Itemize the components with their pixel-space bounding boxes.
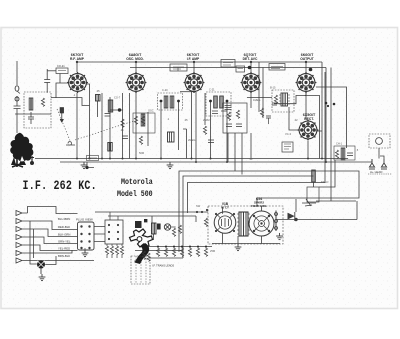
svg-text:CO-7: CO-7 (114, 96, 121, 100)
svg-text:2MEG: 2MEG (188, 138, 195, 142)
ground under speaker cluster (235, 244, 242, 251)
electrolytic capacitor C21 (288, 199, 297, 221)
tube socket box (105, 220, 123, 244)
svg-text:C-21: C-21 (209, 88, 215, 92)
fuse symbol F2 (381, 159, 387, 169)
wire V1 plate stub (76, 62, 78, 72)
output transformer cluster dashed box (272, 90, 294, 112)
tube V2 6A8G/T OSC-MOD (126, 72, 147, 93)
svg-text:50M: 50M (139, 151, 144, 155)
svg-text:BLK-GRN: BLK-GRN (58, 233, 70, 237)
wire antenna lead (16, 61, 18, 85)
wire V4 cathode drop (250, 93, 252, 108)
wire V4 plate stub (250, 62, 252, 72)
svg-text:1MEG: 1MEG (253, 98, 260, 102)
grid cap blob V4 (248, 66, 252, 70)
value box on bus above T3 (221, 60, 235, 68)
svg-text:.05: .05 (96, 89, 100, 93)
resistor small R19 (178, 225, 181, 233)
terminal arrow 7 (16, 258, 94, 263)
wire volume second line (108, 215, 196, 217)
svg-text:YEL-RED: YEL-RED (58, 247, 70, 251)
ground below plug (39, 274, 46, 281)
wire V2 plate stub (135, 62, 137, 72)
right choke coil (341, 148, 345, 160)
wire V5 screen link (316, 87, 347, 148)
svg-text:VC-3: VC-3 (285, 132, 291, 136)
wire right vertical from bus1 (321, 62, 323, 159)
antenna trimmer dashed box (131, 256, 150, 284)
junction dots right bundle (325, 102, 336, 107)
svg-text:SW: SW (196, 204, 201, 208)
wire A+ lead (362, 156, 384, 162)
wire V3 cathode drop b (195, 92, 197, 162)
svg-text:BLU-BRN: BLU-BRN (58, 217, 70, 221)
wire pot coil leads (152, 216, 154, 240)
antenna connector circles (15, 86, 19, 91)
cable connector block (78, 222, 95, 250)
capacitor C10 in detector (226, 124, 232, 127)
label box on bus (87, 156, 99, 161)
antenna series capacitor ticks (14, 96, 21, 133)
dial pointer mark (66, 142, 75, 145)
wire V1 cathode drop (76, 93, 78, 159)
wire under V2 vertical x148 (147, 112, 149, 146)
capacitor C13 (266, 116, 271, 124)
capacitor C7 (122, 136, 128, 139)
wire V3 plate stub (193, 62, 195, 72)
speaker plug P1 (37, 261, 45, 275)
junction blob y110 (118, 108, 121, 111)
resistor R24 row (156, 248, 159, 256)
wire under V3 vertical x205 (204, 93, 206, 125)
resistor R31 left of vibrator (204, 218, 207, 226)
coil T3 primary (214, 96, 218, 108)
value box on bus above V4-V5 (269, 64, 285, 71)
wire right long vertical x325 (188, 72, 326, 213)
T3 terminal dots (209, 100, 228, 103)
ground right of speaker (276, 233, 283, 240)
wire AVC drop b (262, 68, 264, 119)
svg-text:Motorola: Motorola (121, 178, 153, 187)
spark plate circle (376, 138, 383, 145)
resistor R23 below socket (120, 246, 123, 254)
coil L1 antenna (29, 98, 33, 110)
wire volume drop x196 (195, 216, 197, 222)
wire IF1 primary drop (178, 102, 180, 150)
svg-text:OUTPUT: OUTPUT (300, 57, 314, 61)
tone control box (307, 187, 319, 202)
tube V6 6X5G/T RECT (298, 120, 319, 141)
wire switch riser 2 (33, 229, 35, 258)
wire under V2 vertical x129 (129, 93, 131, 159)
wire detector top link (247, 97, 272, 99)
svg-text:250M: 250M (203, 118, 210, 122)
resistor R7 under V3 (203, 126, 206, 134)
capacitor C11 in detector (236, 124, 242, 127)
wire right vertical from bus2 (325, 68, 327, 163)
wire under V2 vertical x122 (122, 93, 124, 159)
wire mid vertical x186 (183, 129, 187, 159)
terminal arrow 3 (16, 227, 78, 237)
wire right vertical to speaker line (356, 201, 358, 220)
svg-text:RECT.: RECT. (304, 117, 314, 121)
wire under V1 vertical x110 (109, 97, 111, 159)
right cluster box (334, 146, 355, 160)
svg-text:CH-1: CH-1 (336, 142, 343, 146)
wire field coil to box (313, 182, 315, 187)
wire connector ground stub (84, 248, 86, 250)
capacitor C3 (44, 69, 50, 93)
wire under V4 vertical x251b (250, 133, 252, 159)
tube V3 6K7G/T IF AMP (184, 72, 205, 93)
coupling capacitor block (168, 132, 175, 142)
IF transformer T3 dashed can (206, 92, 231, 116)
wire connector exits (94, 227, 105, 242)
volume control solid hook (135, 243, 150, 264)
wire right long vertical x331 (330, 68, 332, 202)
capacitor C9 (208, 140, 214, 143)
connector pins (80, 225, 90, 249)
wire volume bottom link2 (148, 257, 183, 259)
wire IF2 drop b (226, 102, 228, 162)
power transformer T4 (237, 212, 250, 236)
wire V1 grid left (56, 83, 68, 98)
wire AVC drop a (258, 62, 260, 112)
tuning capacitor C1A (60, 108, 64, 123)
capacitor C12 (272, 103, 277, 105)
right cluster capacitor C15 (347, 153, 353, 156)
wire socket stubs (110, 212, 118, 220)
svg-text:GRN-YEL: GRN-YEL (58, 240, 71, 244)
RF coupling coil dark bar (108, 100, 112, 112)
terminal arrow 5 (16, 243, 78, 251)
wire V3 cathode drop (191, 92, 193, 159)
ground blob stem (12, 150, 23, 167)
svg-text:OSC. MOD.: OSC. MOD. (126, 57, 144, 61)
resistor R8 in detector (227, 112, 230, 120)
wire speaker output line (276, 219, 357, 221)
resistor R1 (41, 98, 44, 106)
volume control bracket outline (130, 229, 153, 248)
detector stage box (223, 103, 247, 133)
wire under V1 vertical x102 (101, 93, 103, 159)
oscillator coil L3 (141, 114, 145, 126)
junction dots on bus1 (76, 61, 307, 63)
IF transformer T2 dashed can (158, 93, 183, 110)
wire left box link (59, 74, 61, 84)
pilot lamp circle (164, 224, 175, 230)
svg-text:.02: .02 (249, 157, 253, 161)
ground below connector (82, 250, 89, 257)
ground blob artwork (10, 133, 33, 165)
wire B+ bus upper (35, 158, 348, 160)
terminal arrow 1 (16, 211, 28, 216)
wire under V1 vertical x97 (97, 101, 99, 117)
wire vibrator stem (223, 233, 262, 243)
wire box left link (47, 70, 56, 72)
value box on bus above V1 (56, 68, 68, 74)
wire second top bus (130, 67, 326, 69)
grid cap blob V5 (309, 68, 313, 72)
svg-text:A+ LEAD: A+ LEAD (370, 170, 383, 174)
wire spark plate drop (378, 148, 380, 159)
resistor R28 row (188, 248, 191, 256)
wire plug link (45, 256, 56, 265)
wire V5 down to rectifier (305, 93, 307, 120)
junction blob volume (144, 219, 147, 222)
padder capacitor C5 (105, 114, 111, 117)
oscillator cluster box (133, 113, 155, 133)
wire IF2 drop a (210, 102, 212, 159)
electrolytic blob on x110 (108, 143, 112, 152)
tube V5 6K6G/T OUTPUT (296, 72, 317, 93)
terminal arrow 2 (16, 219, 78, 230)
resistor R9 in detector (236, 110, 239, 118)
svg-text:RED-BLK: RED-BLK (58, 225, 70, 229)
svg-text:25M: 25M (210, 249, 215, 253)
wire lead labels (58, 217, 71, 258)
wire V5 plate stub (305, 62, 307, 72)
svg-text:I.F. AMP: I.F. AMP (187, 57, 200, 61)
resistor R6 (139, 136, 142, 144)
junction dots on bus (76, 158, 327, 164)
resistor on x122 (121, 119, 124, 127)
wire V1 plate right (86, 84, 89, 159)
wire V6 cathode drop (307, 141, 309, 159)
wire socket feed (95, 211, 208, 213)
wire resistor row feed (140, 246, 212, 248)
output transformer coil stack (279, 93, 290, 106)
svg-text:BRN-BLK: BRN-BLK (58, 254, 70, 258)
coil T2 secondary (170, 96, 174, 108)
svg-text:Model 500: Model 500 (117, 190, 153, 199)
svg-text:I.F. 262 KC.: I.F. 262 KC. (23, 179, 97, 194)
wire V5 screen routing (305, 96, 320, 159)
svg-text:ANT: ANT (134, 259, 140, 263)
battery tap junction (85, 162, 94, 169)
speaker SPK1 (249, 211, 274, 236)
value box left of V4 (236, 66, 245, 72)
resistor row junction dots (157, 246, 207, 248)
tube V4 6Q7G/T DET-AVC (241, 72, 262, 93)
speaker terminal strip (275, 211, 278, 232)
wire loop outer (179, 171, 359, 252)
socket pins (108, 224, 119, 240)
fuse symbol F1 (369, 159, 375, 169)
right cluster resistor R15 (335, 150, 338, 158)
resistor small R16 (172, 228, 175, 236)
wire IF1 secondary drop (160, 102, 162, 159)
terminal arrow 4 (16, 235, 78, 244)
T3 trimmer marks (212, 111, 227, 114)
volume control hub (137, 237, 142, 242)
antenna coil dashed box (24, 92, 51, 128)
wire vibrator top stem (223, 206, 262, 214)
svg-text:CO-21: CO-21 (57, 64, 65, 68)
vibrator mount dots (215, 213, 235, 232)
capacitor C2 (28, 112, 34, 124)
wire left horizontal y114 (15, 113, 51, 115)
coil T2 primary (164, 96, 168, 108)
wire tuner feed (51, 98, 90, 106)
resistor R13 (260, 108, 263, 116)
oscillator cluster resistor R4 (134, 116, 137, 124)
svg-text:C-20: C-20 (162, 88, 168, 92)
battery terminal mark (30, 156, 34, 165)
wire socket drops (107, 244, 122, 258)
resistor R17 hook area (142, 251, 145, 259)
speaker bolt dots (253, 215, 270, 232)
wire loop lower right (316, 200, 356, 202)
speaker assembly dashed enclosure (208, 206, 283, 244)
label A+ lead dashed (368, 173, 392, 175)
wire resistor row stubs (158, 247, 206, 249)
svg-text:R.F. AMP: R.F. AMP (70, 57, 85, 61)
svg-text:.02: .02 (294, 118, 298, 122)
wire V6 left feed (289, 107, 299, 130)
wire x335 link (319, 160, 335, 187)
wire switch riser (30, 221, 37, 264)
resistor R20 below socket (105, 246, 108, 254)
svg-text:I.F. TRANS LEADS: I.F. TRANS LEADS (152, 264, 174, 268)
dashed trimmer leads (136, 256, 146, 284)
wire detector drop d (241, 133, 243, 175)
coil T3 secondary (220, 96, 224, 108)
wire link y110 (110, 109, 123, 111)
svg-text:DET. AVC: DET. AVC (243, 57, 258, 61)
resistor R22 below socket (115, 246, 118, 254)
detector box hatch (225, 106, 232, 110)
svg-text:FIELD COIL: FIELD COIL (251, 204, 267, 208)
resistor R30 row (204, 248, 207, 256)
resistor R21 below socket (110, 246, 113, 254)
svg-text:PLUG VIEW: PLUG VIEW (76, 218, 93, 222)
ground left (81, 162, 88, 169)
resistor R29 row (196, 248, 199, 256)
speaker field coil (312, 170, 316, 182)
wire detector drop b (227, 133, 229, 162)
svg-text:B-15: B-15 (270, 86, 276, 90)
resistor R25 row (164, 248, 167, 256)
resistor R12 (274, 95, 277, 103)
wire volume bottom link (135, 250, 183, 252)
svg-text:OSC: OSC (148, 109, 154, 113)
wire speaker cluster bottom (212, 243, 280, 245)
terminals above vibrator (196, 209, 208, 213)
tone switch block (157, 224, 161, 230)
volume pot coil (152, 223, 157, 234)
T2 terminal dots (160, 100, 180, 103)
switch block dark (135, 221, 142, 228)
wire loop second (183, 176, 314, 258)
resistor network box left of V6 (282, 142, 293, 152)
wire detector drop c (234, 133, 236, 171)
dial cord dotted link (57, 109, 135, 141)
vibrator VIB (214, 212, 236, 234)
spark plate box dashed (369, 134, 390, 148)
wire top plate bus (77, 61, 322, 63)
wire V6 right link (317, 130, 322, 132)
wire top nested loop (28, 207, 78, 214)
wire V3 pin tie (180, 91, 196, 93)
svg-text:.05: .05 (184, 118, 188, 122)
wire V5 plate routing (274, 93, 306, 104)
terminal arrow 6 (16, 250, 72, 256)
ground bus symbol (167, 162, 174, 169)
RF choke dark blob a (96, 95, 101, 102)
oscillator cluster resistor R5 (141, 116, 144, 124)
tube V1 6K7G/T RF AMP (67, 72, 88, 93)
resistor R27 row (180, 248, 183, 256)
potentiometer P2 (302, 199, 316, 206)
wire V2 cathode drop (135, 93, 137, 159)
resistor R26 row (172, 248, 175, 256)
svg-text:.25: .25 (120, 128, 124, 132)
value box on bus above T2 (170, 64, 187, 71)
resistor R18 hook area (147, 253, 150, 261)
wire B+ bus lower (60, 161, 362, 163)
svg-text:FIELD: FIELD (321, 180, 328, 184)
